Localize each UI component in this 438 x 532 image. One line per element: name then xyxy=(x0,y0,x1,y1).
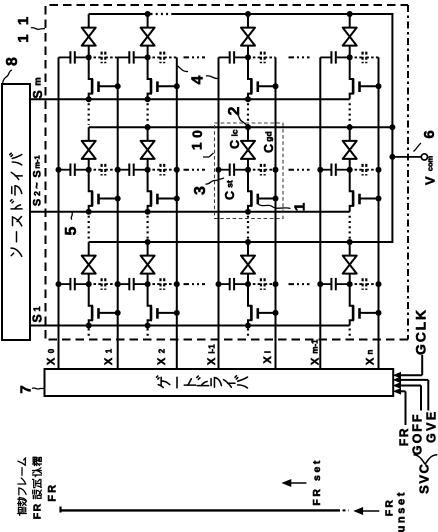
parasitic capacitor Cgd (dashed) row3 coll xyxy=(248,283,261,285)
junction: Cgd to gate line row3 col2 xyxy=(174,281,180,287)
junction: Vcom rail / LC row3 coln xyxy=(347,239,353,245)
row-repetition dots below row2 col1 xyxy=(88,216,90,240)
LC element Clc (bowtie) row2 coll xyxy=(241,141,255,150)
leader bracket for 10 xyxy=(203,153,214,157)
TFT transistor row1 col1 xyxy=(89,57,92,99)
junction: TFT drain / source line row3 col2 xyxy=(145,323,151,329)
Vcom terminal stub xyxy=(392,156,421,158)
junction: Vcom rail / LC row2 coll xyxy=(245,124,251,130)
svg-text:0: 0 xyxy=(47,348,56,353)
wire: LC to pixel node row1 col2 xyxy=(147,46,149,58)
GOFF input line + arrow xyxy=(394,383,401,388)
svg-text:X: X xyxy=(156,357,168,365)
pixel node junction row1 coln xyxy=(347,54,353,60)
dashed box right edge (dash-dot) xyxy=(407,5,409,340)
svg-text:m: m xyxy=(33,77,44,85)
TFT gate lead to X1 row2 col1 xyxy=(99,198,118,200)
svg-text:7: 7 xyxy=(18,385,35,393)
svg-text:l-1: l-1 xyxy=(207,344,216,354)
LC element Clc (bowtie) row3 col1 xyxy=(82,256,96,265)
TFT gate lead to Xl row2 coll xyxy=(258,198,276,200)
wire: Vcom rail to LC element row2 col1 xyxy=(88,127,90,141)
svg-text:1: 1 xyxy=(105,348,114,353)
leader squiggle for 1 xyxy=(258,204,291,209)
row-repetition dots below row3 coll xyxy=(247,329,249,339)
junction: TFT drain / source line row2 col1 xyxy=(86,209,92,215)
svg-text:1: 1 xyxy=(32,306,43,312)
svg-text:com: com xyxy=(426,155,435,171)
gate line Xn xyxy=(378,57,380,369)
TFT transistor row2 col1 xyxy=(89,170,92,212)
svg-text:C: C xyxy=(262,144,276,153)
SVC brace xyxy=(414,455,438,464)
parasitic capacitor Cgd (dashed) row2 col1 xyxy=(89,169,102,171)
TFT gate lead to Xl row3 coll xyxy=(258,312,276,314)
pixel node junction row2 coll xyxy=(245,167,251,173)
svg-text:X: X xyxy=(206,357,218,365)
source line S row 1 xyxy=(30,98,350,100)
wire: LC to pixel node row2 coln xyxy=(349,159,351,170)
leader squiggle for 2 xyxy=(236,113,247,125)
wire: LC to pixel node row1 coln xyxy=(349,46,351,58)
pixel node junction row3 coll xyxy=(245,281,251,287)
detail pixel dashed box 10 xyxy=(215,123,284,219)
parasitic capacitor Cgd (dashed) row1 col2 xyxy=(148,56,161,58)
Vcom top rail xyxy=(89,13,151,15)
junction: Cst to gate line row3 col2 xyxy=(115,281,121,287)
junction: Cst to gate line row2 col1 xyxy=(56,167,62,173)
FR waveform start tick xyxy=(59,507,61,513)
junction: Cgd to gate line row2 col2 xyxy=(174,167,180,173)
row-repetition dots below row2 coln xyxy=(349,216,351,240)
storage capacitor Cst row3 coln xyxy=(320,283,331,285)
junction: Vcom rail / LC row2 col2 xyxy=(145,124,151,130)
junction: Cgd to gate line row2 coll xyxy=(273,167,279,173)
wire: Vcom rail to LC element row2 coll xyxy=(247,127,249,141)
row-repetition dots below row2 coll xyxy=(247,216,249,240)
TFT gate lead to X2 row3 col2 xyxy=(157,312,176,314)
gate line Xl-1 xyxy=(218,57,220,369)
svg-text:C: C xyxy=(223,191,237,200)
LC element Clc (bowtie) row3 coln xyxy=(343,256,357,265)
parasitic capacitor Cgd (dashed) row3 col2 xyxy=(148,283,161,285)
gate driver label ゲートドライバ xyxy=(156,376,169,387)
junction: Vcom rail / LC row1 coln xyxy=(347,11,353,17)
leader squiggle for 3 xyxy=(206,178,225,184)
pixel node junction row3 col2 xyxy=(145,281,151,287)
TFT transistor row3 col2 xyxy=(148,284,151,325)
pixel node junction row1 col2 xyxy=(145,54,151,60)
row-repetition dots below row3 col2 xyxy=(147,329,149,339)
parasitic capacitor Cgd (dashed) row2 col2 xyxy=(148,169,161,171)
LC element Clc (bowtie) row2 coln xyxy=(343,141,357,150)
pixel node junction row2 coln xyxy=(347,167,353,173)
junction: Cst to gate line row3 col1 xyxy=(56,281,62,287)
pixel node junction row2 col2 xyxy=(145,167,151,173)
svg-text:S: S xyxy=(32,170,44,177)
svg-text:gd: gd xyxy=(263,131,273,141)
wire: Vcom rail to LC element row1 col1 xyxy=(88,14,90,28)
svg-text:~: ~ xyxy=(32,182,44,189)
gate line X0 xyxy=(58,57,60,369)
storage capacitor Cst row1 col2 xyxy=(118,56,130,58)
svg-text:unset: unset xyxy=(395,490,407,532)
wire: LC to pixel node row1 col1 xyxy=(88,46,90,58)
LC element Clc (bowtie) row2 col2 xyxy=(141,141,155,150)
wire: LC to pixel node row3 coln xyxy=(349,274,351,285)
junction: Cgd to gate line row2 col1 xyxy=(115,167,121,173)
pixel node junction row1 coll xyxy=(245,54,251,60)
svg-text:st: st xyxy=(224,180,234,188)
parasitic capacitor Cgd (dashed) row1 col1 xyxy=(89,56,102,58)
svg-text:GOFF: GOFF xyxy=(411,412,425,455)
leader squiggle for 5 xyxy=(71,213,72,220)
svg-text:6: 6 xyxy=(421,130,438,138)
leader squiggle for 7 xyxy=(32,388,44,389)
junction: TFT drain / source line row2 coll xyxy=(245,209,251,215)
junction: Vcom rail / LC row3 col2 xyxy=(145,239,151,245)
wire: Vcom rail to LC element row1 coll xyxy=(247,14,249,28)
svg-text:1 1: 1 1 xyxy=(15,14,32,42)
omitted-columns continuation marks xyxy=(184,283,206,285)
svg-text:V: V xyxy=(422,176,437,185)
TFT transistor row2 coln xyxy=(350,170,353,212)
TFT gate lead to X2 row2 col2 xyxy=(157,198,176,200)
omitted-columns continuation marks xyxy=(184,169,206,171)
svg-text:GVE: GVE xyxy=(424,409,438,443)
pixel node junction row3 col1 xyxy=(86,281,92,287)
row-repetition dots below row1 coln xyxy=(349,103,351,125)
junction: Vcom rail / LC row1 col2 xyxy=(145,11,151,17)
TFT transistor row3 coll xyxy=(248,284,251,325)
junction: Cst to gate line row3 coll xyxy=(216,281,222,287)
storage capacitor Cst row1 coll xyxy=(219,56,230,58)
TFT transistor row3 coln xyxy=(350,284,353,325)
svg-text:1: 1 xyxy=(189,142,205,150)
svg-text:1: 1 xyxy=(292,203,309,211)
source driver box xyxy=(2,84,30,340)
storage capacitor Cst row2 coln xyxy=(320,169,331,171)
svg-text:4: 4 xyxy=(189,75,206,84)
parasitic capacitor Cgd (dashed) row2 coll xyxy=(248,169,261,171)
wire: Vcom rail to LC element row1 coln xyxy=(349,14,351,28)
wire: LC to pixel node row3 coll xyxy=(247,274,249,285)
Vcom rail row 2 xyxy=(89,126,393,128)
row-repetition dots below row3 col1 xyxy=(88,329,90,339)
gate line Xm-1 xyxy=(319,57,321,369)
LC element Clc (bowtie) row3 col2 xyxy=(141,256,155,265)
junction: TFT drain / source line row2 col2 xyxy=(145,209,151,215)
svg-text:0: 0 xyxy=(189,130,205,138)
storage capacitor Cst row3 coll xyxy=(219,283,230,285)
svg-text:X: X xyxy=(365,357,377,365)
TFT transistor row1 coll xyxy=(248,57,251,99)
pixel node junction row2 col1 xyxy=(86,167,92,173)
FR input line + arrow xyxy=(394,389,401,394)
junction: Cgd to gate line row2 coln xyxy=(376,167,382,173)
TFT transistor row3 col1 xyxy=(89,284,92,325)
LC element Clc (bowtie) row1 coll xyxy=(241,28,255,37)
label 偶数フレーム xyxy=(18,507,27,515)
source line S row 2 xyxy=(30,211,350,213)
wire: LC to pixel node row2 col2 xyxy=(147,159,149,170)
TFT transistor row1 coln xyxy=(350,57,353,99)
junction: Vcom rail / LC row1 coll xyxy=(245,11,251,17)
omitted-columns continuation marks xyxy=(184,56,206,58)
parasitic capacitor Cgd (dashed) row3 coln xyxy=(350,283,363,285)
junction: Cst to gate line row2 coll xyxy=(216,167,222,173)
LC element Clc (bowtie) row1 coln xyxy=(343,28,357,37)
LC element Clc (bowtie) row2 col1 xyxy=(82,141,96,150)
svg-text:C: C xyxy=(228,140,242,149)
FR unset arrow xyxy=(355,508,363,515)
storage capacitor Cst row2 col2 xyxy=(118,169,130,171)
parasitic capacitor Cgd (dashed) row1 coln xyxy=(350,56,363,58)
parasitic capacitor Cgd (dashed) row1 coll xyxy=(248,56,261,58)
TFT transistor row1 col2 xyxy=(148,57,151,99)
junction: TFT drain / source line row1 coll xyxy=(245,96,251,102)
svg-text:FR: FR xyxy=(384,498,396,516)
parasitic capacitor Cgd (dashed) row2 coln xyxy=(350,169,363,171)
svg-text:5: 5 xyxy=(63,226,80,235)
wire: Vcom rail to LC element row3 col2 xyxy=(147,242,149,256)
FR waveform line xyxy=(61,509,341,511)
junction: Cgd to gate line row3 col1 xyxy=(115,281,121,287)
leader squiggle for 11 xyxy=(31,28,45,30)
TFT transistor row2 coll xyxy=(248,170,251,212)
junction: TFT drain / source line row1 col2 xyxy=(145,96,151,102)
wire: Vcom rail to LC element row2 col2 xyxy=(147,127,149,141)
wire: Vcom rail to LC element row2 coln xyxy=(349,127,351,141)
junction: TFT drain / source line row1 col1 xyxy=(86,96,92,102)
TFT gate lead to X1 row1 col1 xyxy=(99,85,118,87)
TFT gate lead to Xn row3 coln xyxy=(360,312,379,314)
Vcom rail row 3 xyxy=(89,241,393,243)
LC element Clc (bowtie) row1 col1 xyxy=(82,28,96,37)
svg-text:2: 2 xyxy=(158,348,167,353)
svg-text:3: 3 xyxy=(192,186,209,195)
junction: Vcom rail / LC row2 coln xyxy=(347,124,353,130)
parasitic capacitor Cgd (dashed) row3 col1 xyxy=(89,283,102,285)
junction: TFT drain / source line row3 coll xyxy=(245,323,251,329)
junction: Cgd to gate line row3 coln xyxy=(376,281,382,287)
svg-text:X: X xyxy=(46,357,58,365)
wire: Vcom rail to LC element row3 coll xyxy=(247,242,249,256)
gate line Xl xyxy=(275,57,277,369)
storage capacitor Cst row2 coll xyxy=(219,169,230,171)
storage capacitor Cst row2 col1 xyxy=(59,169,71,171)
svg-text:X: X xyxy=(103,357,115,365)
junction: Cst to gate line row2 col2 xyxy=(115,167,121,173)
row-repetition dots below row1 col1 xyxy=(88,103,90,125)
GVE input line + arrow xyxy=(394,377,401,382)
row-repetition dots below row2 col2 xyxy=(147,216,149,240)
gate line X1 xyxy=(117,57,119,369)
svg-text:FR: FR xyxy=(47,483,59,502)
LC element Clc (bowtie) row3 coll xyxy=(241,256,255,265)
gate driver box xyxy=(45,369,394,396)
storage capacitor Cst row3 col2 xyxy=(118,283,130,285)
wire: LC to pixel node row2 coll xyxy=(247,159,249,170)
svg-text:GCLK: GCLK xyxy=(413,308,429,355)
TFT gate lead to X1 row3 col1 xyxy=(99,312,118,314)
svg-text:FR: FR xyxy=(32,502,44,519)
svg-text:8: 8 xyxy=(4,57,21,66)
leader squiggles for 4 xyxy=(178,66,189,72)
wire: LC to pixel node row3 col2 xyxy=(147,274,149,285)
svg-text:lc: lc xyxy=(229,129,239,136)
wire: Vcom rail to LC element row3 coln xyxy=(349,242,351,256)
svg-text:FR: FR xyxy=(397,427,411,446)
source driver label ソースドライバ xyxy=(11,248,22,256)
svg-text:X: X xyxy=(310,357,322,365)
wire: Vcom rail to LC element row3 col1 xyxy=(88,242,90,256)
dotted continuation on top rail xyxy=(151,13,172,15)
LC element Clc (bowtie) row1 col2 xyxy=(141,28,155,37)
gate line X2 xyxy=(176,57,178,369)
LCD panel dashed outline box 11 xyxy=(46,5,409,339)
Vcom bus (right vertical) xyxy=(391,13,393,243)
pixel node junction row1 col1 xyxy=(86,54,92,60)
storage capacitor Cst row3 col1 xyxy=(59,283,71,285)
TFT gate lead to X2 row1 col2 xyxy=(157,85,176,87)
svg-text:FR set: FR set xyxy=(311,458,323,506)
svg-text:m-1: m-1 xyxy=(33,155,42,168)
junction: bus / rail2 xyxy=(389,124,395,130)
svg-text:2: 2 xyxy=(32,191,42,196)
svg-text:S: S xyxy=(32,199,44,206)
junction: Vcom rail / LC row3 coll xyxy=(245,239,251,245)
pixel node junction row3 coln xyxy=(347,281,353,287)
TFT gate lead to Xn row1 coln xyxy=(360,85,379,87)
source line S row 3 xyxy=(30,325,350,327)
junction: Cgd to gate line row3 coll xyxy=(273,281,279,287)
TFT gate lead to Xn row2 coln xyxy=(360,198,379,200)
svg-text:SVC: SVC xyxy=(417,463,432,494)
row-repetition dots below row1 col2 xyxy=(147,103,149,125)
storage capacitor Cst row1 col1 xyxy=(59,56,71,58)
svg-text:m-1: m-1 xyxy=(311,339,320,354)
wire: LC to pixel node row2 col1 xyxy=(88,159,90,170)
svg-text:n: n xyxy=(366,349,375,354)
leader squiggle for 8 xyxy=(3,70,13,84)
junction: TFT drain / source line row3 col1 xyxy=(86,323,92,329)
wire: LC to pixel node row1 coll xyxy=(247,46,249,58)
svg-text:S: S xyxy=(30,314,44,322)
TFT transistor row2 col2 xyxy=(148,170,151,212)
svg-text:S: S xyxy=(31,90,45,98)
junction: Cst to gate line row2 coln xyxy=(317,167,323,173)
wire: Vcom rail to LC element row1 col2 xyxy=(147,14,149,28)
leader squiggle for 6 xyxy=(414,143,422,152)
svg-text:X: X xyxy=(262,356,274,364)
svg-text:l: l xyxy=(263,351,272,353)
junction: Cst to gate line row3 coln xyxy=(317,281,323,287)
FR set arrow xyxy=(283,480,291,487)
TFT gate lead to Xl row1 coll xyxy=(258,85,276,87)
storage capacitor Cst row1 coln xyxy=(320,56,331,58)
GCLK input line + arrow xyxy=(394,373,401,378)
svg-text:2: 2 xyxy=(226,106,243,115)
wire: LC to pixel node row3 col1 xyxy=(88,274,90,285)
row-repetition dots below row3 coln xyxy=(349,329,351,339)
dashed box bottom edge xyxy=(46,339,409,341)
Vcom terminal circle xyxy=(421,154,427,160)
row-repetition dots below row1 coll xyxy=(247,103,249,125)
